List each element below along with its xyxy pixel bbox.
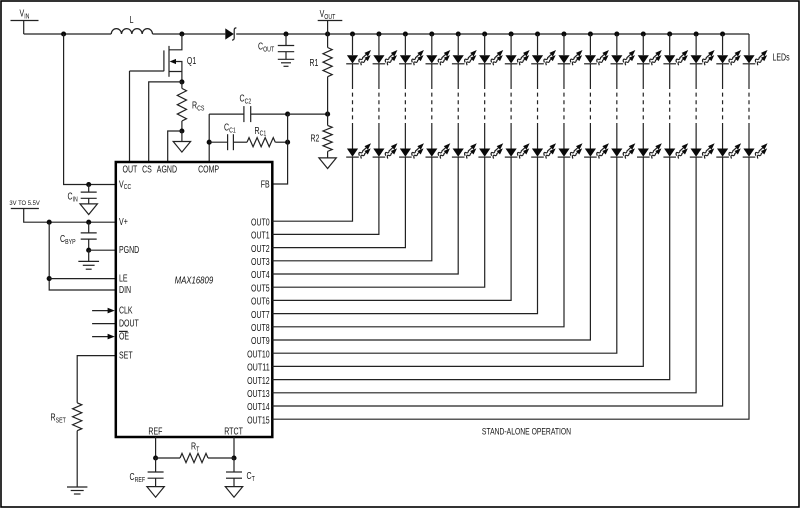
node COMP <box>207 140 212 145</box>
inductor L <box>111 29 152 34</box>
wire string 0 dashed (more LEDs) <box>352 85 354 123</box>
ground CIN (signal) <box>80 204 97 215</box>
LED string 2 bottom <box>399 141 426 159</box>
wire comp to R1/R2 <box>288 113 328 115</box>
wire string 15 upper <box>748 64 750 85</box>
resistor RCS <box>181 82 183 89</box>
wire string 2 upper <box>404 64 406 85</box>
svg-text:OUT11: OUT11 <box>247 363 270 374</box>
svg-text:OUT0: OUT0 <box>251 217 270 228</box>
LED string 9 bottom <box>584 141 611 159</box>
LED string 7 top <box>531 48 558 66</box>
wire string 5 dashed (more LEDs) <box>484 85 486 123</box>
node LED string 10 rail <box>614 31 619 36</box>
wire string 6 lower <box>510 123 512 149</box>
node PGND <box>86 248 91 253</box>
resistor R2 <box>327 114 329 125</box>
wire string 6 anode <box>510 34 512 55</box>
ground CREF (signal) <box>147 487 164 498</box>
LED string 6 bottom <box>505 141 532 159</box>
svg-text:OUT8: OUT8 <box>251 323 270 334</box>
svg-text:DIN: DIN <box>119 285 131 296</box>
wire string 11 dashed (more LEDs) <box>642 85 644 123</box>
capacitor CT <box>233 458 235 472</box>
wire string 6 upper <box>510 64 512 85</box>
svg-text:OUT9: OUT9 <box>251 336 270 347</box>
capacitor CC2 <box>209 113 244 115</box>
svg-text:OUT2: OUT2 <box>251 244 270 255</box>
LED string 5 top <box>478 48 505 66</box>
wire string 3 upper <box>431 64 433 85</box>
wire string 13 cathode to OUT13 <box>272 157 696 393</box>
wire string 5 cathode to OUT5 <box>272 157 484 287</box>
capacitor CBYP <box>88 222 90 233</box>
node LED string 4 rail <box>456 31 461 36</box>
LED string 7 bottom <box>531 141 558 159</box>
node LED string 3 rail <box>429 31 434 36</box>
svg-text:OE: OE <box>119 332 129 343</box>
wire string 14 anode <box>722 34 724 55</box>
LED string 14 bottom <box>716 141 743 159</box>
wire string 15 lower <box>748 123 750 149</box>
node RCS bottom <box>179 128 184 133</box>
node LED string 12 rail <box>667 31 672 36</box>
LED string 8 bottom <box>558 141 585 159</box>
node LE <box>47 276 52 281</box>
wire string 3 anode <box>431 34 433 55</box>
wire LE/DIN vertical <box>49 222 116 290</box>
svg-text:PGND: PGND <box>119 245 139 256</box>
transistor Q1 drain lead <box>169 34 182 50</box>
wire DOUT pin <box>92 323 116 325</box>
node LED string 0 rail <box>350 31 355 36</box>
LED string 15 top <box>743 48 770 66</box>
LED string 10 bottom <box>611 141 638 159</box>
wire string 10 lower <box>616 123 618 149</box>
svg-text:OUT14: OUT14 <box>247 402 270 413</box>
wire string 10 cathode to OUT10 <box>272 157 617 353</box>
wire string 3 dashed (more LEDs) <box>431 85 433 123</box>
transistor Q1 gate lead <box>130 70 164 72</box>
input arrow OE <box>92 336 108 338</box>
terminal VOUT <box>318 20 343 22</box>
wire COMP pin <box>208 114 210 162</box>
capacitor CIN <box>88 185 90 193</box>
node LED string 13 rail <box>694 31 699 36</box>
svg-text:RTCT: RTCT <box>224 426 243 437</box>
node VIN/VCC branch <box>61 31 66 36</box>
ground COUT <box>278 58 294 60</box>
wire string 12 anode <box>669 34 671 55</box>
node CBYP top <box>86 220 91 225</box>
wire string 2 cathode to OUT2 <box>272 157 405 248</box>
wire string 14 upper <box>722 64 724 85</box>
svg-text:LEDs: LEDs <box>773 53 790 64</box>
wire string 3 lower <box>431 123 433 149</box>
wire string 0 upper <box>352 64 354 85</box>
wire string 0 lower <box>352 123 354 149</box>
wire string 6 cathode to OUT6 <box>272 157 511 300</box>
wire string 11 lower <box>642 123 644 149</box>
svg-text:OUT1: OUT1 <box>251 231 270 242</box>
LED string 4 bottom <box>452 141 479 159</box>
svg-text:OUT5: OUT5 <box>251 283 270 294</box>
wire AGND pin <box>168 131 182 162</box>
LED string 13 top <box>690 48 717 66</box>
wire string 9 lower <box>589 123 591 149</box>
wire string 8 dashed (more LEDs) <box>563 85 565 123</box>
wire string 9 anode <box>589 34 591 55</box>
svg-text:OUT4: OUT4 <box>251 270 270 281</box>
wire REF pin <box>155 437 157 458</box>
svg-text:COMP: COMP <box>198 164 219 175</box>
wire string 6 dashed (more LEDs) <box>510 85 512 123</box>
svg-text:LE: LE <box>119 274 128 285</box>
svg-text:AGND: AGND <box>157 164 177 175</box>
LED string 5 bottom <box>478 141 505 159</box>
wire PGND pin <box>89 249 116 251</box>
wire string 15 anode <box>748 34 750 55</box>
LED string 12 top <box>663 48 690 66</box>
transistor Q1 source lead <box>169 72 182 82</box>
svg-text:Q1: Q1 <box>187 56 197 67</box>
wire string 0 anode <box>352 34 354 55</box>
wire rail L to diode <box>153 33 226 35</box>
wire string 3 cathode to OUT3 <box>272 157 432 261</box>
wire string 5 upper <box>484 64 486 85</box>
svg-text:REF: REF <box>148 426 162 437</box>
node REF <box>153 455 158 460</box>
wire string 8 cathode to OUT8 <box>272 157 564 327</box>
node Q1 source <box>179 79 184 84</box>
wire string 1 cathode to OUT1 <box>272 157 379 234</box>
wire string 8 lower <box>563 123 565 149</box>
op-amp U1 MAX16809 IC body <box>116 162 272 437</box>
wire string 9 upper <box>589 64 591 85</box>
LED string 10 top <box>611 48 638 66</box>
wire string 14 cathode to OUT14 <box>272 157 722 406</box>
wire string 14 lower <box>722 123 724 149</box>
node Q1 drain <box>179 31 184 36</box>
node LED string 6 rail <box>509 31 514 36</box>
wire string 7 anode <box>537 34 539 55</box>
wire input rail <box>24 33 112 35</box>
wire string 7 dashed (more LEDs) <box>537 85 539 123</box>
wire VCC branch <box>64 34 116 185</box>
wire SET pin <box>77 356 116 403</box>
transistor Q1 gate bar <box>163 50 165 71</box>
capacitor CC1 <box>209 141 227 143</box>
node R1/R2 junction <box>325 112 330 117</box>
ground CT (signal) <box>225 487 242 498</box>
wire string 10 dashed (more LEDs) <box>616 85 618 123</box>
wire FB pin <box>272 114 287 184</box>
LED string 11 bottom <box>637 141 664 159</box>
wire string 1 dashed (more LEDs) <box>378 85 380 123</box>
node LED string 8 rail <box>561 31 566 36</box>
node LED string 5 rail <box>482 31 487 36</box>
svg-text:R1: R1 <box>310 58 319 69</box>
wire RSET to ground <box>76 431 78 487</box>
svg-text:OUT10: OUT10 <box>247 349 270 360</box>
wire string 8 upper <box>563 64 565 85</box>
svg-text:V+: V+ <box>119 217 128 228</box>
node LED string 2 rail <box>403 31 408 36</box>
LED string 13 bottom <box>690 141 717 159</box>
ground RCS (signal) <box>181 131 183 142</box>
ground RSET <box>67 486 87 488</box>
svg-text:OUT15: OUT15 <box>247 415 270 426</box>
svg-text:3V TO 5.5V: 3V TO 5.5V <box>9 200 40 207</box>
wire string 7 upper <box>537 64 539 85</box>
LED string 2 top <box>399 48 426 66</box>
wire string 11 upper <box>642 64 644 85</box>
node RC1 right <box>285 140 290 145</box>
wire string 4 upper <box>457 64 459 85</box>
wire OUT pin to gate <box>129 71 131 162</box>
svg-text:STAND-ALONE OPERATION: STAND-ALONE OPERATION <box>482 426 571 437</box>
wire string 2 dashed (more LEDs) <box>404 85 406 123</box>
transistor Q1 body arrow <box>175 62 182 72</box>
svg-text:OUT12: OUT12 <box>247 376 270 387</box>
terminal VIN <box>11 20 39 22</box>
svg-text:MAX16809: MAX16809 <box>175 276 214 287</box>
wire string 13 anode <box>695 34 697 55</box>
wire string 4 cathode to OUT4 <box>272 157 458 274</box>
wire string 13 upper <box>695 64 697 85</box>
node LED string 7 rail <box>535 31 540 36</box>
node RTCT <box>231 455 236 460</box>
node LE/DIN branch <box>47 220 52 225</box>
wire string 10 anode <box>616 34 618 55</box>
node LED string 1 rail <box>376 31 381 36</box>
svg-text:DOUT: DOUT <box>119 319 139 330</box>
wire string 11 cathode to OUT11 <box>272 157 643 366</box>
wire string 14 dashed (more LEDs) <box>722 85 724 123</box>
wire rail diode to LEDs <box>236 33 749 35</box>
node LED string 14 rail <box>720 31 725 36</box>
resistor R1 <box>327 34 329 48</box>
input arrow CLK <box>92 310 108 312</box>
resistor RT <box>156 457 180 459</box>
node LED string 11 rail <box>641 31 646 36</box>
node CC2 right <box>285 112 290 117</box>
resistor RC1 <box>247 138 275 147</box>
wire string 12 lower <box>669 123 671 149</box>
wire string 4 lower <box>457 123 459 149</box>
svg-text:CS: CS <box>142 164 152 175</box>
wire string 5 anode <box>484 34 486 55</box>
wire string 1 lower <box>378 123 380 149</box>
LED string 0 bottom <box>346 141 373 159</box>
wire string 13 dashed (more LEDs) <box>695 85 697 123</box>
wire string 12 upper <box>669 64 671 85</box>
node VOUT/R1 <box>325 31 330 36</box>
wire string 9 dashed (more LEDs) <box>589 85 591 123</box>
wire string 1 anode <box>378 34 380 55</box>
svg-text:OUT6: OUT6 <box>251 297 270 308</box>
wire string 12 cathode to OUT12 <box>272 157 669 380</box>
wire string 1 upper <box>378 64 380 85</box>
LED string 0 top <box>346 48 373 66</box>
wire V+ branch <box>24 209 116 223</box>
node LED string 9 rail <box>588 31 593 36</box>
svg-text:OUT7: OUT7 <box>251 310 270 321</box>
resistor RSET <box>73 403 82 431</box>
wire LE pin <box>49 278 116 280</box>
svg-text:R2: R2 <box>311 134 320 145</box>
wire string 15 cathode to OUT15 <box>272 157 749 419</box>
LED string 15 bottom <box>743 141 770 159</box>
wire string 7 lower <box>537 123 539 149</box>
wire string 7 cathode to OUT7 <box>272 157 537 314</box>
node COUT <box>283 31 288 36</box>
wire string 5 lower <box>484 123 486 149</box>
LED string 12 bottom <box>663 141 690 159</box>
svg-text:OUT: OUT <box>123 164 138 175</box>
wire string 2 lower <box>404 123 406 149</box>
wire string 9 cathode to OUT9 <box>272 157 590 340</box>
LED string 14 top <box>716 48 743 66</box>
svg-text:CLK: CLK <box>119 306 133 317</box>
LED string 3 bottom <box>426 141 453 159</box>
wire string 2 anode <box>404 34 406 55</box>
svg-text:OUT3: OUT3 <box>251 257 270 268</box>
wire string 11 anode <box>642 34 644 55</box>
LED string 1 bottom <box>373 141 400 159</box>
wire string 8 anode <box>563 34 565 55</box>
LED string 9 top <box>584 48 611 66</box>
wire string 10 upper <box>616 64 618 85</box>
LED string 4 top <box>452 48 479 66</box>
LED string 11 top <box>637 48 664 66</box>
wire string 15 dashed (more LEDs) <box>748 85 750 123</box>
diode D1 <box>225 28 234 39</box>
wire string 4 anode <box>457 34 459 55</box>
wire string 13 lower <box>695 123 697 149</box>
transistor Q1 channel bar <box>168 46 170 77</box>
wire VOUT to rail <box>327 21 329 35</box>
ground R2 (signal) <box>319 158 336 169</box>
svg-text:SET: SET <box>119 351 133 362</box>
node CIN <box>86 182 91 187</box>
wire string 0 cathode to OUT0 <box>272 157 352 221</box>
svg-text:OUT13: OUT13 <box>247 389 270 400</box>
LED string 1 top <box>373 48 400 66</box>
wire CS pin to source <box>149 82 182 162</box>
wire string 12 dashed (more LEDs) <box>669 85 671 123</box>
capacitor CREF <box>155 458 157 472</box>
LED string 6 top <box>505 48 532 66</box>
LED string 8 top <box>558 48 585 66</box>
ground PGND <box>88 250 90 261</box>
capacitor COUT <box>285 34 287 46</box>
svg-text:L: L <box>130 15 134 26</box>
wire VIN to rail <box>23 21 25 35</box>
wire string 4 dashed (more LEDs) <box>457 85 459 123</box>
LED string 3 top <box>426 48 453 66</box>
svg-text:FB: FB <box>261 179 270 190</box>
wire RTCT pin <box>233 437 235 458</box>
